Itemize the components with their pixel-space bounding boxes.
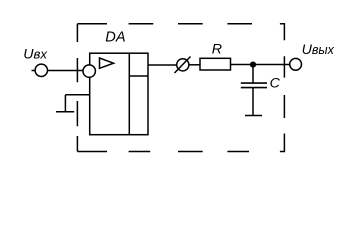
svg-text:Uвых: Uвых bbox=[302, 42, 335, 58]
svg-text:R: R bbox=[212, 42, 222, 58]
wire: node down to capacitor C bbox=[252, 65, 254, 84]
input terminal circle (Uvx) bbox=[35, 64, 47, 76]
svg-text:DA: DA bbox=[105, 30, 125, 46]
dashed IC boundary box: top edge bbox=[77, 23, 285, 25]
svg-text:Uвх: Uвх bbox=[23, 47, 47, 63]
dashed IC boundary box: bottom edge bbox=[77, 151, 285, 153]
wire: input terminal to DA input pin bbox=[48, 70, 85, 72]
op-amp DA: right field divider bbox=[128, 53, 130, 135]
op-amp DA: input pin circle on left edge bbox=[83, 65, 95, 77]
op-amp DA: right field horizontal divider bbox=[129, 75, 148, 77]
ground bar (left) bbox=[56, 111, 74, 113]
resistor R body bbox=[200, 58, 231, 70]
dashed IC boundary box: left edge bbox=[76, 24, 78, 152]
op-amp DA: amplifier triangle symbol bbox=[100, 58, 114, 68]
ground bar (under C) bbox=[245, 115, 262, 117]
analog switch slash bbox=[175, 57, 191, 74]
wire: resistor R to output terminal bbox=[231, 64, 290, 66]
svg-text:C: C bbox=[270, 75, 281, 91]
wire: DA output to switch bbox=[148, 64, 177, 66]
input terminal lead stub bbox=[32, 70, 36, 72]
op-amp DA: body rectangle bbox=[90, 53, 148, 135]
wire: DA ground pin vertical bbox=[64, 95, 66, 112]
dashed IC boundary box: right edge bbox=[283, 24, 285, 152]
output terminal circle (Uvyx) bbox=[290, 58, 302, 70]
analog switch circle bbox=[177, 59, 189, 71]
wire: DA ground pin horizontal bbox=[65, 94, 89, 96]
junction node dot bbox=[250, 62, 256, 68]
wire: switch to resistor R bbox=[189, 64, 200, 66]
capacitor C bottom plate bbox=[241, 87, 267, 89]
wire: capacitor C to ground bar bbox=[252, 88, 254, 116]
capacitor C top plate bbox=[241, 82, 267, 84]
